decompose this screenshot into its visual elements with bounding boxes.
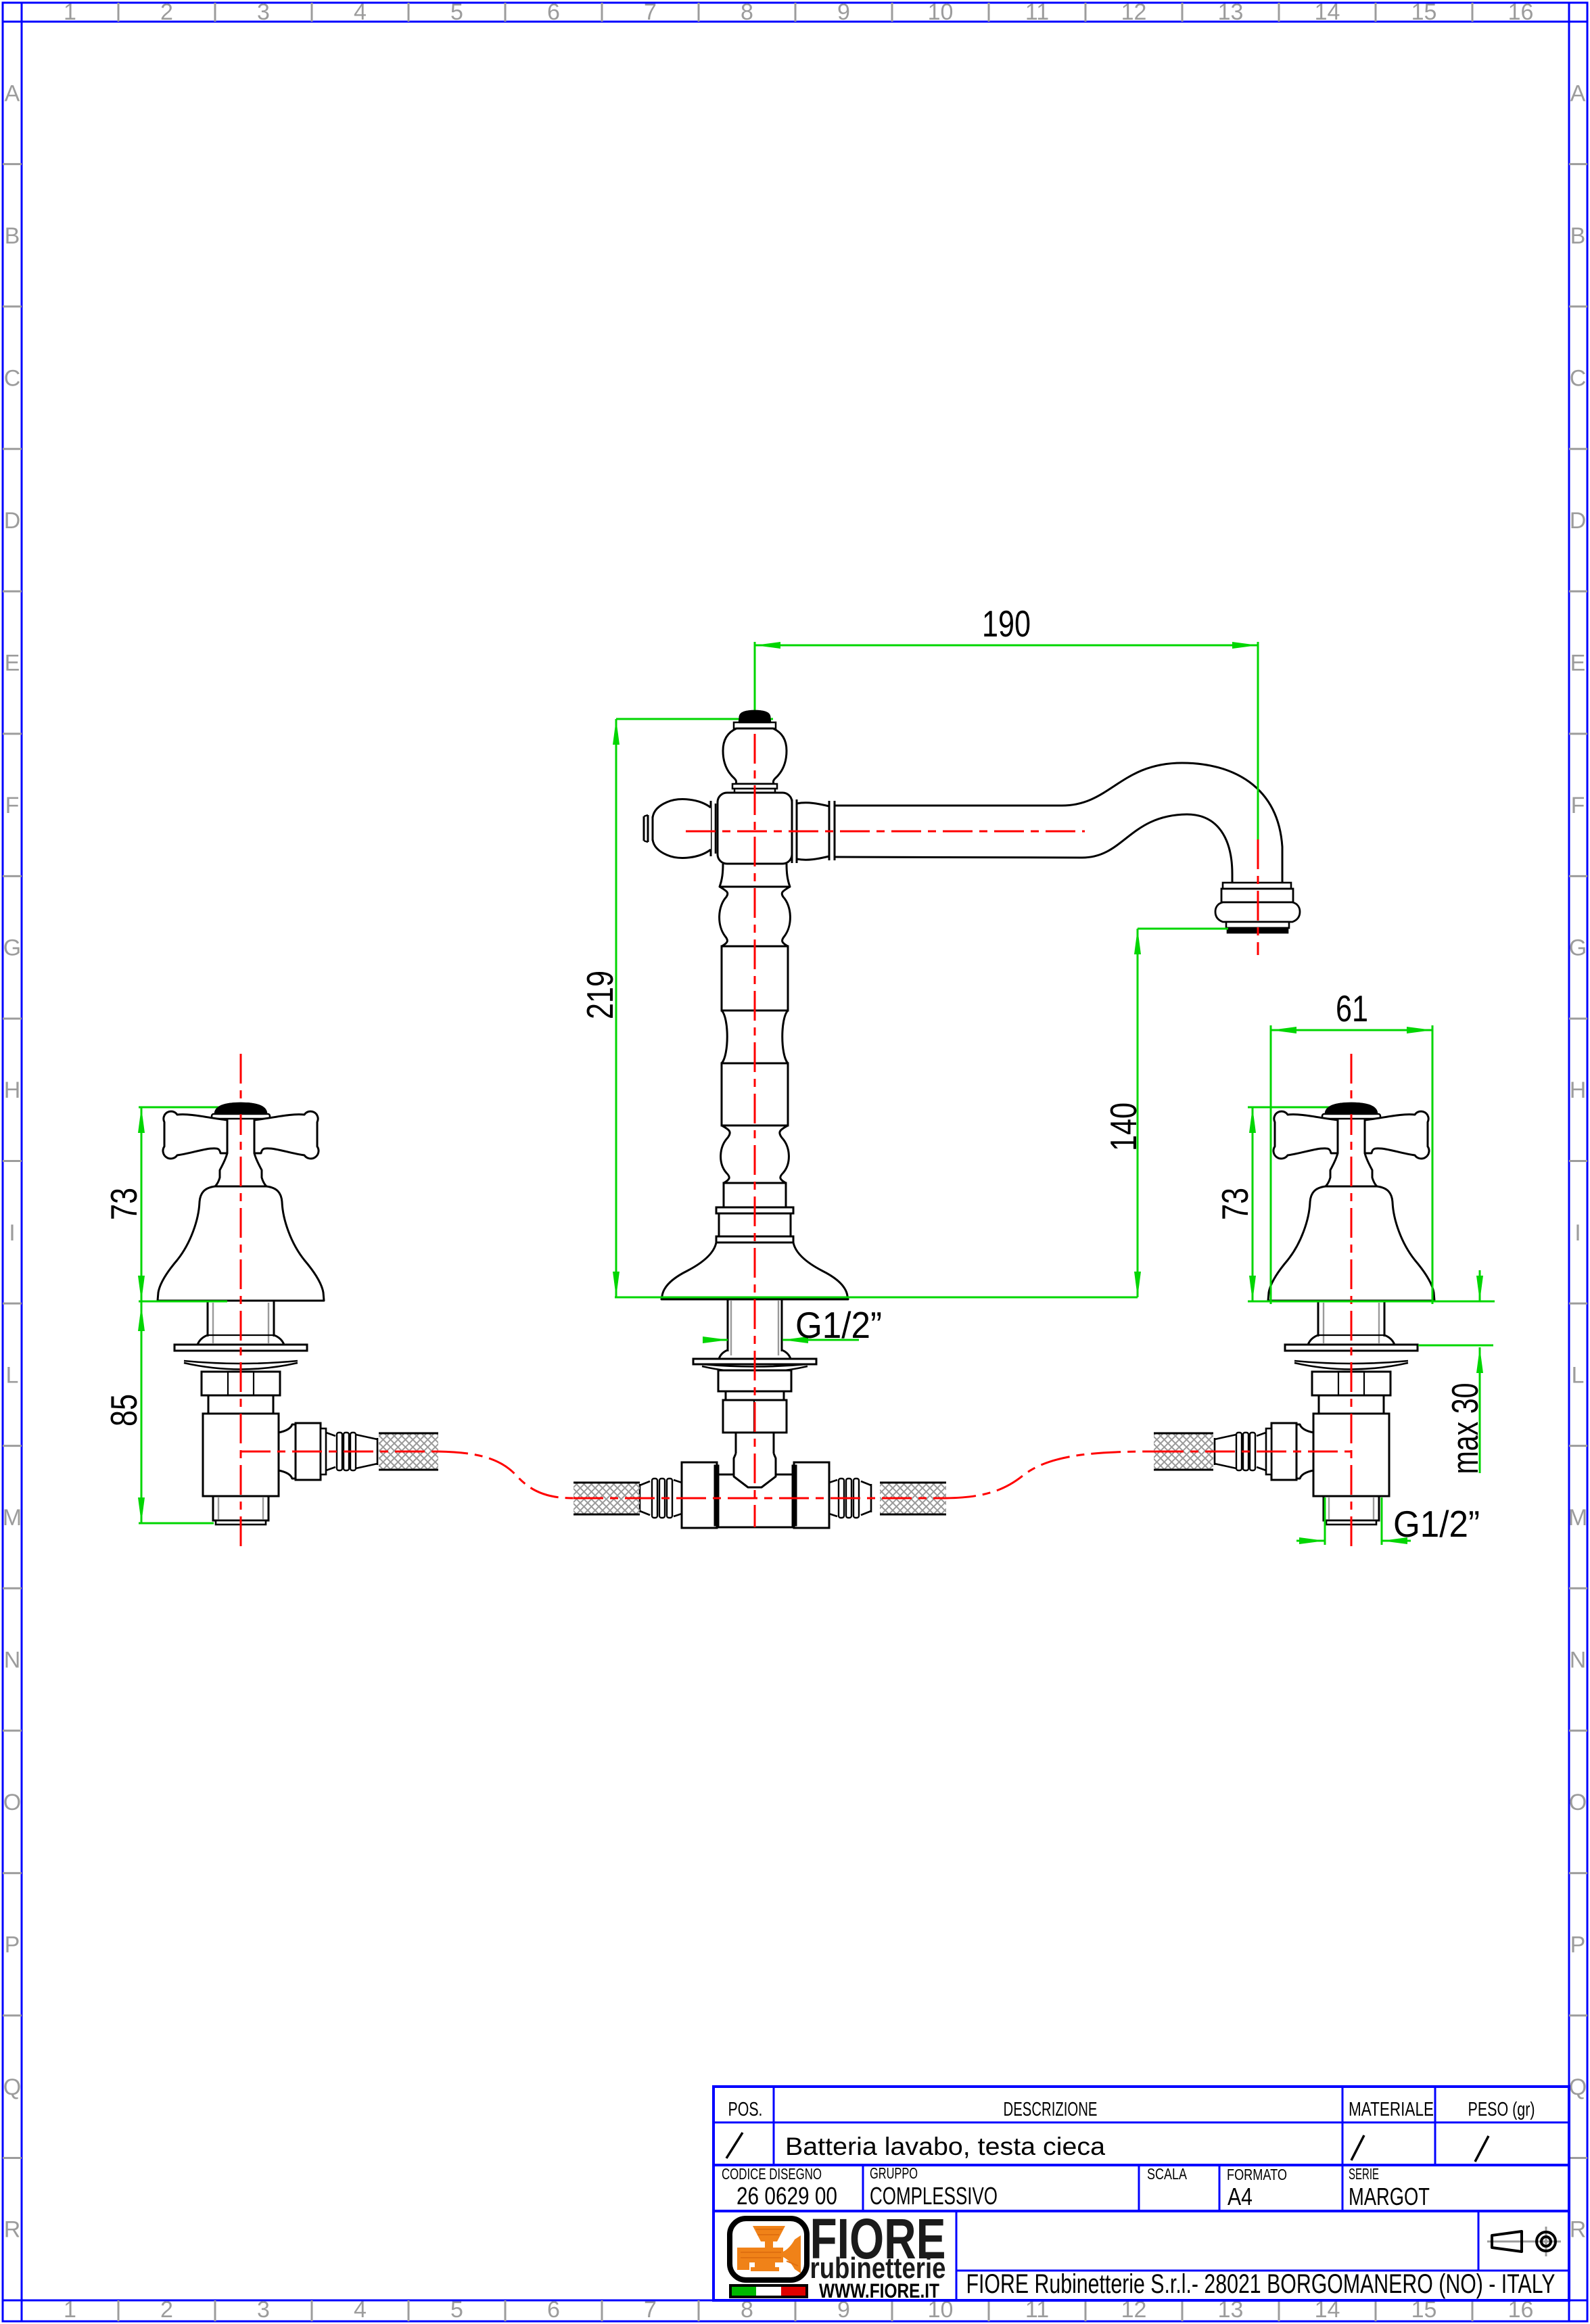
svg-text:12: 12 [1121, 0, 1147, 25]
svg-text:D: D [4, 508, 21, 534]
svg-text:Q: Q [3, 2074, 21, 2100]
svg-text:P: P [5, 1932, 20, 1958]
svg-text:73: 73 [103, 1188, 145, 1220]
svg-text:SCALA: SCALA [1147, 2165, 1188, 2183]
svg-text:G: G [1569, 935, 1587, 961]
svg-text:MARGOT: MARGOT [1349, 2183, 1430, 2210]
svg-text:61: 61 [1336, 987, 1368, 1029]
svg-text:G: G [3, 935, 21, 961]
svg-text:6: 6 [547, 2297, 560, 2323]
svg-text:B: B [1570, 223, 1586, 249]
svg-text:MATERIALE: MATERIALE [1349, 2099, 1434, 2120]
svg-text:I: I [1574, 1220, 1581, 1246]
svg-text:SERIE: SERIE [1349, 2165, 1379, 2183]
svg-text:WWW.FIORE.IT: WWW.FIORE.IT [819, 2280, 939, 2302]
svg-text:7: 7 [644, 2297, 657, 2323]
svg-text:GRUPPO: GRUPPO [870, 2164, 918, 2182]
svg-text:O: O [3, 1790, 21, 1815]
svg-text:O: O [1569, 1790, 1587, 1815]
svg-text:A4: A4 [1227, 2183, 1253, 2210]
svg-text:140: 140 [1102, 1102, 1144, 1151]
svg-text:FIORE Rubinetterie S.r.l.- 280: FIORE Rubinetterie S.r.l.- 28021 BORGOMA… [966, 2269, 1556, 2299]
svg-text:15: 15 [1411, 0, 1437, 25]
svg-text:13: 13 [1218, 0, 1244, 25]
svg-text:26 0629 00: 26 0629 00 [736, 2182, 837, 2210]
svg-text:N: N [4, 1647, 21, 1673]
svg-text:G1/2”: G1/2” [795, 1304, 882, 1346]
svg-text:L: L [6, 1362, 19, 1388]
svg-text:7: 7 [644, 0, 657, 25]
svg-text:Q: Q [1569, 2074, 1587, 2100]
svg-text:6: 6 [547, 0, 560, 25]
svg-text:H: H [4, 1077, 21, 1103]
svg-text:2: 2 [160, 0, 173, 25]
svg-text:DESCRIZIONE: DESCRIZIONE [1004, 2099, 1098, 2120]
svg-text:R: R [4, 2217, 21, 2243]
svg-text:POS.: POS. [728, 2099, 763, 2120]
svg-text:C: C [1570, 365, 1587, 391]
svg-text:1: 1 [64, 2297, 76, 2323]
svg-text:C: C [4, 365, 21, 391]
svg-text:P: P [1570, 1932, 1586, 1958]
svg-text:A: A [1570, 80, 1586, 106]
svg-text:F: F [1571, 793, 1585, 818]
svg-text:4: 4 [354, 2297, 367, 2323]
svg-text:4: 4 [354, 0, 367, 25]
svg-text:3: 3 [257, 2297, 270, 2323]
svg-text:E: E [1570, 651, 1586, 676]
svg-text:1: 1 [64, 0, 76, 25]
svg-text:Batteria lavabo, testa cieca: Batteria lavabo, testa cieca [785, 2133, 1105, 2160]
svg-text:9: 9 [837, 0, 850, 25]
svg-text:3: 3 [257, 0, 270, 25]
svg-text:R: R [1570, 2217, 1587, 2243]
svg-text:N: N [1570, 1647, 1587, 1673]
svg-text:PESO (gr): PESO (gr) [1468, 2099, 1535, 2120]
svg-text:COMPLESSIVO: COMPLESSIVO [870, 2182, 998, 2210]
svg-text:73: 73 [1214, 1188, 1256, 1220]
svg-text:F: F [5, 793, 20, 818]
svg-text:I: I [9, 1220, 15, 1246]
svg-text:8: 8 [741, 0, 753, 25]
svg-text:5: 5 [450, 2297, 463, 2323]
svg-text:2: 2 [160, 2297, 173, 2323]
svg-text:190: 190 [982, 603, 1031, 645]
svg-text:FORMATO: FORMATO [1227, 2166, 1287, 2183]
svg-text:G1/2”: G1/2” [1393, 1503, 1480, 1545]
svg-text:B: B [5, 223, 20, 249]
svg-text:A: A [5, 80, 20, 106]
svg-text:CODICE DISEGNO: CODICE DISEGNO [722, 2165, 822, 2183]
svg-text:E: E [5, 651, 20, 676]
svg-text:M: M [1568, 1505, 1587, 1531]
svg-text:L: L [1572, 1362, 1585, 1388]
svg-text:H: H [1570, 1077, 1587, 1103]
svg-text:11: 11 [1025, 0, 1049, 25]
svg-text:16: 16 [1508, 0, 1534, 25]
svg-text:219: 219 [579, 971, 621, 1019]
svg-text:M: M [3, 1505, 22, 1531]
svg-text:D: D [1570, 508, 1587, 534]
svg-text:10: 10 [928, 0, 954, 25]
svg-text:85: 85 [103, 1394, 145, 1426]
svg-text:max 30: max 30 [1444, 1383, 1486, 1474]
svg-text:5: 5 [450, 0, 463, 25]
svg-text:14: 14 [1315, 0, 1340, 25]
